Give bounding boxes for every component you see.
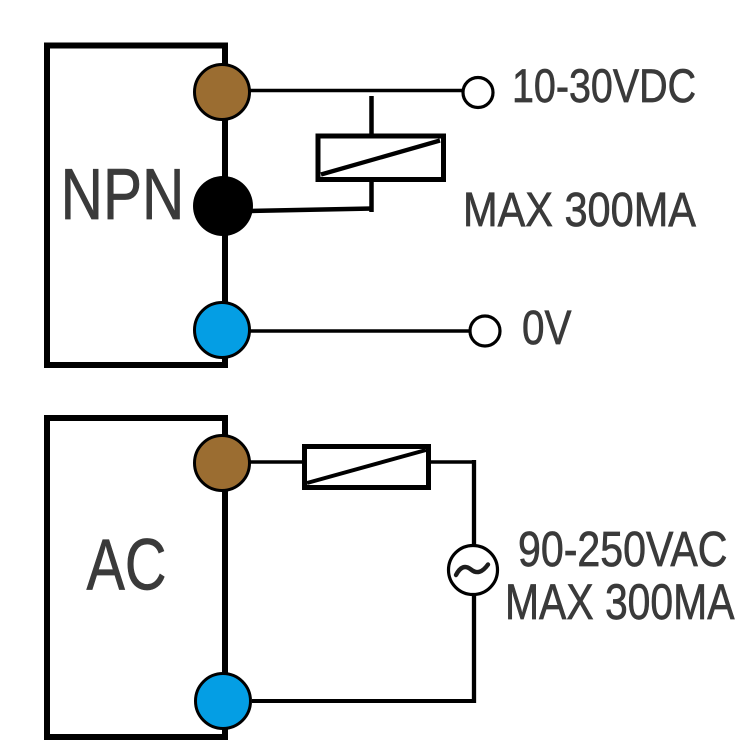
svg-text:AC: AC bbox=[86, 524, 166, 605]
svg-text:MAX 300MA: MAX 300MA bbox=[463, 182, 696, 237]
svg-text:0V: 0V bbox=[522, 302, 572, 355]
svg-text:NPN: NPN bbox=[61, 154, 185, 234]
svg-text:MAX 300MA: MAX 300MA bbox=[505, 574, 735, 630]
svg-text:10-30VDC: 10-30VDC bbox=[512, 61, 696, 113]
svg-text:90-250VAC: 90-250VAC bbox=[518, 522, 727, 577]
